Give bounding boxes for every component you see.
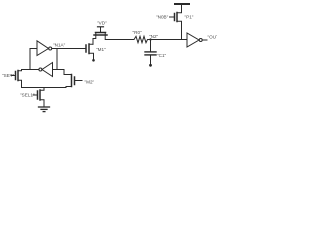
svg-text:"P1": "P1" — [185, 15, 194, 20]
svg-text:"M2": "M2" — [85, 80, 95, 85]
svg-text:"SET": "SET" — [2, 73, 15, 78]
svg-text:"N2": "N2" — [149, 34, 159, 39]
svg-text:"R0": "R0" — [133, 30, 143, 35]
svg-text:"SEL1": "SEL1" — [20, 93, 35, 98]
svg-text:"OUT1": "OUT1" — [208, 35, 218, 40]
svg-text:"N0B": "N0B" — [156, 15, 169, 20]
svg-text:"VD": "VD" — [97, 21, 107, 26]
svg-text:"M1": "M1" — [96, 47, 106, 52]
svg-text:"C1": "C1" — [157, 53, 167, 58]
svg-text:"N1A": "N1A" — [53, 43, 66, 48]
